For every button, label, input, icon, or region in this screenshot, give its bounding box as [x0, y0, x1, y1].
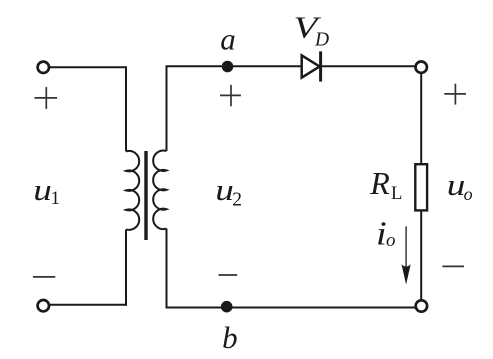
svg-text:u: u	[447, 168, 466, 202]
svg-text:a: a	[220, 21, 236, 56]
wire right vertical top	[420, 74, 422, 163]
minus sign u1	[33, 276, 55, 278]
terminal bottom-right	[416, 300, 427, 311]
label io	[376, 214, 396, 252]
node b	[221, 301, 233, 313]
wire secondary top rail	[166, 65, 302, 67]
plus sign uo	[444, 84, 466, 105]
label a	[220, 21, 236, 56]
svg-text:u: u	[33, 173, 52, 207]
wire primary left vertical top	[125, 66, 127, 151]
label RL	[369, 165, 402, 204]
minus sign u2	[219, 274, 238, 276]
svg-text:o: o	[464, 184, 473, 204]
terminal top-left	[38, 62, 49, 73]
wire diode to top-right terminal	[322, 65, 415, 67]
label uo	[447, 168, 473, 204]
svg-text:b: b	[222, 320, 238, 355]
terminal bottom-left	[38, 300, 49, 311]
svg-text:R: R	[369, 165, 390, 201]
plus sign u2	[220, 85, 241, 106]
current arrow io	[402, 226, 411, 284]
wire secondary vertical bottom	[166, 229, 168, 308]
wire secondary vertical top	[166, 66, 168, 151]
transformer primary winding L1	[126, 151, 139, 230]
transformer core	[144, 151, 147, 240]
label u1	[33, 173, 60, 209]
wire right vertical bottom	[420, 212, 422, 300]
svg-text:u: u	[215, 173, 234, 207]
svg-text:1: 1	[51, 188, 61, 209]
minus sign uo	[442, 265, 464, 267]
svg-text:2: 2	[232, 189, 242, 210]
transformer secondary winding L2	[153, 150, 166, 229]
wire primary left vertical bottom	[125, 229, 127, 305]
terminal top-right	[416, 61, 427, 72]
svg-text:L: L	[391, 183, 402, 204]
label VD	[294, 11, 330, 51]
svg-text:D: D	[314, 30, 329, 51]
diode VD	[302, 51, 321, 81]
resistor RL	[415, 164, 427, 210]
label u2	[215, 173, 242, 210]
wire primary bottom	[50, 304, 127, 306]
svg-text:o: o	[386, 230, 396, 251]
wire secondary bottom rail	[166, 307, 415, 309]
label b	[222, 320, 238, 355]
node a	[222, 61, 234, 73]
plus sign u1	[35, 87, 58, 109]
wire primary top	[50, 66, 126, 68]
